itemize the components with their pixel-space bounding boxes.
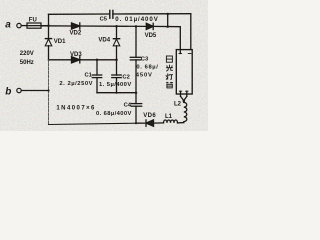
- bottom rail left segment: [49, 123, 137, 124]
- wire node A up to top rail: [48, 14, 50, 25]
- fuse FU: [27, 23, 41, 28]
- wire4: [97, 92, 136, 94]
- lamp tube: [176, 50, 192, 94]
- diode VD2: [72, 23, 80, 29]
- wire a to fuse: [21, 25, 27, 27]
- diode VD6: [145, 120, 147, 126]
- left column continue down: [48, 46, 50, 60]
- left column node A down: [48, 26, 50, 39]
- diode VD5: [146, 23, 153, 29]
- lamp bottom electrodes: [180, 91, 182, 96]
- glyph ri (sun): [166, 56, 172, 62]
- wire b to column: [21, 90, 48, 92]
- wire2 main row: [41, 25, 72, 27]
- glyph guang (light): [166, 65, 173, 72]
- inductor L2: [184, 102, 187, 122]
- capacitor C3: [130, 56, 140, 58]
- top rail right segment: [113, 13, 191, 15]
- capacitor C5 plates: [109, 10, 111, 18]
- wire2 to lamp left electrode: [153, 26, 180, 53]
- left column faint segment to b row: [48, 60, 50, 91]
- link top rail to VD5 wire: [167, 14, 169, 27]
- capacitor C4: [131, 103, 141, 105]
- glyph deng (lamp): [166, 74, 173, 80]
- C3 column from wire2: [135, 26, 137, 57]
- diode VD3: [72, 57, 80, 63]
- lamp top-right electrode: [188, 53, 191, 55]
- diode VD1: [45, 38, 51, 40]
- bottom rail mid segment: [136, 122, 146, 124]
- capacitor C1: [96, 60, 98, 75]
- wire3: [49, 59, 72, 61]
- junction dots: [27, 13, 185, 125]
- top rail left segment: [49, 13, 110, 15]
- terminal a: [17, 23, 21, 27]
- capacitor C2: [116, 60, 118, 75]
- fuse inner line: [27, 25, 41, 26]
- wire lamp right electrode drop: [190, 14, 192, 50]
- lamp text glyphs: [166, 56, 173, 88]
- glyph guan (tube): [166, 82, 173, 88]
- column down to C4: [135, 93, 137, 104]
- diode VD4: [113, 38, 119, 40]
- lamp top-left electrode: [179, 50, 181, 54]
- labels: [5, 16, 181, 120]
- terminal b: [17, 88, 21, 92]
- inductor L1: [164, 120, 178, 123]
- VD4 column from wire2: [116, 26, 118, 39]
- left column faint segment to bottom rail: [48, 91, 50, 125]
